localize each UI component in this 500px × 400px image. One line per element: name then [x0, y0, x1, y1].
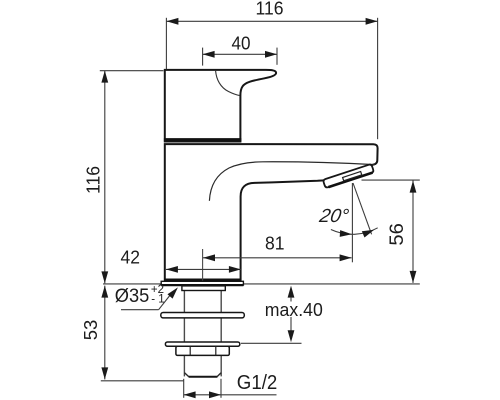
dimension 116 top: line: [166, 20, 377, 22]
dimension diameter 35: underline: [121, 309, 159, 311]
dimension 56: up arrow: [410, 181, 417, 193]
dimension 20 degrees: vertical reference line: [351, 183, 353, 262]
dimension 116 top: right extension line: [377, 18, 379, 139]
dimension 81: right arrow: [340, 254, 352, 261]
dimension G1/2: right extension line: [220, 379, 222, 398]
dimension 56: top extension line: [362, 179, 420, 181]
dimension G1/2: right arrow: [209, 391, 221, 398]
svg-text:53: 53: [80, 320, 101, 341]
dimension 56: down arrow: [410, 271, 417, 283]
dimension 116 left: up arrow: [101, 71, 108, 83]
shank tube right edge: [220, 290, 222, 376]
svg-text:20°: 20°: [317, 206, 351, 227]
dimension max.40: washer extension line: [241, 342, 302, 344]
shank collar: [182, 286, 225, 291]
svg-text:G1/2: G1/2: [237, 372, 277, 394]
node: vertical centerline axis: [202, 249, 204, 281]
dimension 20 degrees: arc arrow at slant: [362, 227, 376, 238]
shank bottom right chamfer: [217, 373, 221, 377]
handle block outline: [165, 70, 276, 142]
aerator outlet body: [323, 164, 374, 188]
nut facet line left: [189, 346, 191, 355]
dimension 53: down arrow: [101, 367, 108, 379]
dimension 116 top: left arrow: [166, 18, 178, 25]
spout inner profile curve: [209, 162, 374, 201]
wire: mounting surface line left segment: [103, 283, 161, 285]
svg-text:81: 81: [265, 233, 285, 254]
dimension G1/2: left extension line: [183, 379, 185, 398]
wire: mounting surface line right segment: [244, 283, 420, 285]
dimension 20 degrees: arc: [331, 228, 378, 235]
svg-text:40: 40: [232, 33, 251, 54]
dimension max.40: lower arrow: [288, 330, 295, 342]
dimension 40: right extension line: [276, 48, 278, 65]
svg-text:116: 116: [256, 0, 284, 19]
dimension 56: line: [412, 180, 414, 283]
dimension 53: up arrow: [101, 286, 108, 298]
dimension 40: left arrow: [203, 51, 215, 58]
shank thread bottom edge: [189, 376, 218, 378]
dimension 53: bottom extension line: [101, 380, 184, 382]
nut facet line right: [215, 346, 217, 355]
dimension max.40: upper arrow: [288, 286, 295, 298]
dimension diameter 35: leader line: [159, 295, 171, 310]
svg-text:116: 116: [83, 166, 104, 194]
dimension 81: left arrow: [203, 254, 215, 261]
dimension 40: left extension line: [202, 48, 204, 66]
dimension 40: line: [203, 53, 277, 55]
dimension 116 left: down arrow: [101, 271, 108, 283]
dimension 116 left: top extension line: [100, 70, 164, 72]
svg-text:max.40: max.40: [265, 299, 323, 320]
aerator bottom thick edge: [328, 173, 372, 188]
handle joint thick bottom bar: [164, 138, 242, 141]
dimension 116 left: line: [104, 71, 106, 284]
dimension max.40: lower stem: [290, 317, 292, 331]
handle inner curve: [216, 71, 240, 96]
dimension 42: line: [166, 268, 241, 270]
base plate: [161, 281, 243, 285]
dimension 42: right arrow: [229, 266, 241, 273]
dimension 81: line: [203, 257, 352, 259]
dimension G1/2: line: [184, 394, 277, 396]
dimension 116 top: left extension line: [165, 18, 167, 69]
base plate bottom thick edge: [161, 284, 243, 286]
nut body: [176, 346, 229, 355]
dimension 53: line: [104, 286, 106, 380]
dimension max.40: upper stem: [290, 297, 292, 302]
body bottom edge thick: [164, 278, 242, 281]
svg-text:56: 56: [387, 223, 408, 246]
dimension 116 top: right arrow: [366, 18, 378, 25]
faucet body and spout outline: [165, 144, 378, 280]
svg-text:- 1: - 1: [151, 293, 164, 305]
washer 2 lower: [165, 342, 239, 346]
dimension 20 degrees: slanted line: [353, 183, 372, 234]
dimension 40: right arrow: [265, 51, 277, 58]
svg-text:42: 42: [121, 246, 141, 267]
washer 1 upper: [161, 313, 245, 318]
dimension 42: left arrow: [166, 266, 178, 273]
shank bottom left chamfer: [184, 373, 188, 377]
svg-text:Ø35: Ø35: [115, 285, 150, 307]
shank tube left edge: [183, 290, 185, 376]
aerator inner slot: [343, 172, 362, 181]
dimension G1/2: left arrow: [184, 391, 196, 398]
dimension diameter 35: leader arrow: [167, 285, 180, 299]
dimension 20 degrees: arc arrow at vertical: [340, 230, 352, 238]
